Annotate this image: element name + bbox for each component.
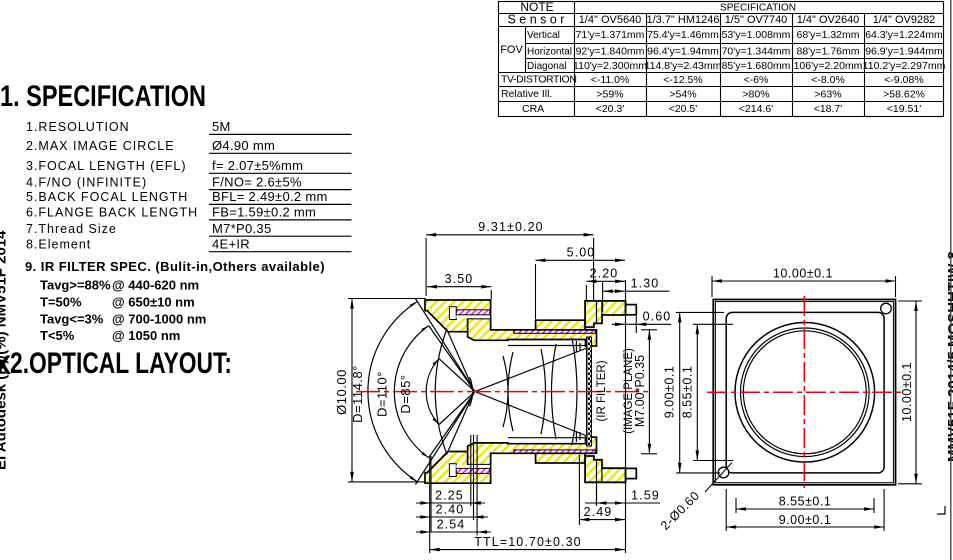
svg-text:96.4'y=1.94mm: 96.4'y=1.94mm <box>647 46 719 58</box>
svg-text:1.59: 1.59 <box>631 489 660 503</box>
svg-text:CRA: CRA <box>522 103 544 115</box>
svg-text:110'y=2.300mm: 110'y=2.300mm <box>573 60 647 72</box>
svg-text:X: X <box>0 350 11 380</box>
svg-text:5.BACK FOCAL LENGTH: 5.BACK FOCAL LENGTH <box>26 190 188 204</box>
svg-text:2.49: 2.49 <box>584 505 613 519</box>
svg-text:Relative Ill.: Relative Ill. <box>501 88 552 100</box>
svg-text:1/4" OV2640: 1/4" OV2640 <box>797 14 860 26</box>
svg-text:@ 1050 nm: @ 1050 nm <box>112 328 180 343</box>
svg-text:106'y=2.20mm: 106'y=2.20mm <box>794 60 863 72</box>
svg-text:S e n s o r: S e n s o r <box>508 13 565 27</box>
svg-text:>59%: >59% <box>596 89 623 101</box>
svg-text:71'y=1.371mm: 71'y=1.371mm <box>576 29 645 41</box>
svg-text:SPECIFICATION: SPECIFICATION <box>720 3 796 14</box>
svg-text:F/NO= 2.6±5%: F/NO= 2.6±5% <box>212 175 302 190</box>
svg-text:1/5" OV7740: 1/5" OV7740 <box>725 14 788 26</box>
svg-text:7.Thread Size: 7.Thread Size <box>26 222 117 236</box>
svg-text:70'y=1.344mm: 70'y=1.344mm <box>722 46 791 58</box>
svg-text:@ 700-1000 nm: @ 700-1000 nm <box>112 311 206 326</box>
svg-text:92'y=1.840mm: 92'y=1.840mm <box>576 46 645 58</box>
svg-text:M7.00*P0.35: M7.00*P0.35 <box>633 355 647 427</box>
svg-text:5M: 5M <box>212 119 231 134</box>
svg-text:3.50: 3.50 <box>445 272 474 286</box>
svg-text:8.55±0.1: 8.55±0.1 <box>681 366 695 419</box>
svg-text:1/4" OV5640: 1/4" OV5640 <box>579 14 642 26</box>
svg-text:Diagonal: Diagonal <box>527 61 566 72</box>
svg-text:8.55±0.1: 8.55±0.1 <box>779 494 832 508</box>
svg-text:1/4" OV9282: 1/4" OV9282 <box>873 14 936 26</box>
svg-text:10.00±0.1: 10.00±0.1 <box>900 362 914 422</box>
svg-text:<20.5': <20.5' <box>669 103 698 115</box>
svg-text:Ø10.00: Ø10.00 <box>334 369 349 415</box>
svg-text:8.Element: 8.Element <box>26 238 91 252</box>
svg-text:1.30: 1.30 <box>631 277 660 291</box>
svg-text:10.00±0.1: 10.00±0.1 <box>773 266 833 280</box>
svg-text:<-12.5%: <-12.5% <box>663 74 702 86</box>
svg-text:T<5%: T<5% <box>40 328 75 343</box>
svg-text:(IR FILTER): (IR FILTER) <box>596 360 608 421</box>
svg-text:Tavg>=88%: Tavg>=88% <box>40 277 111 292</box>
svg-text:0.60: 0.60 <box>643 310 672 324</box>
svg-text:TTL=10.70±0.30: TTL=10.70±0.30 <box>474 535 581 549</box>
svg-text:M7*P0.35: M7*P0.35 <box>212 221 272 236</box>
svg-text:68'y=1.32mm: 68'y=1.32mm <box>797 29 860 41</box>
svg-text:>58.62%: >58.62% <box>883 89 925 101</box>
svg-text:<18.7': <18.7' <box>814 103 843 115</box>
svg-text:3.FOCAL LENGTH (EFL): 3.FOCAL LENGTH (EFL) <box>26 159 187 173</box>
svg-text:<-9.08%: <-9.08% <box>884 74 923 86</box>
svg-text:f= 2.07±5%mm: f= 2.07±5%mm <box>212 158 303 173</box>
svg-text:<-8.0%: <-8.0% <box>811 74 845 86</box>
svg-text:85'y=1.680mm: 85'y=1.680mm <box>722 60 791 72</box>
svg-text:64.3'y=1.224mm: 64.3'y=1.224mm <box>865 29 943 41</box>
svg-text:D=85°: D=85° <box>398 374 413 413</box>
svg-text:D=114.8°: D=114.8° <box>350 365 365 423</box>
svg-text:1. SPECIFICATION: 1. SPECIFICATION <box>0 80 206 113</box>
svg-text:BFL= 2.49±0.2 mm: BFL= 2.49±0.2 mm <box>212 189 328 204</box>
svg-text:2.25: 2.25 <box>435 489 464 503</box>
svg-text:@ 650±10 nm: @ 650±10 nm <box>112 294 195 309</box>
svg-text:Horizontal: Horizontal <box>527 47 572 58</box>
svg-text:<20.3': <20.3' <box>596 103 625 115</box>
svg-text:114.8'y=2.43mm: 114.8'y=2.43mm <box>645 60 722 72</box>
svg-text:MMV51F 2014/5 MOSHHTIW 8: MMV51F 2014/5 MOSHHTIW 8 <box>945 251 953 462</box>
svg-text:88'y=1.76mm: 88'y=1.76mm <box>797 46 860 58</box>
svg-text:53'y=1.008mm: 53'y=1.008mm <box>722 29 791 41</box>
svg-text:>63%: >63% <box>814 89 841 101</box>
svg-text:2.MAX IMAGE CIRCLE: 2.MAX IMAGE CIRCLE <box>26 139 175 153</box>
svg-text:9.00±0.1: 9.00±0.1 <box>663 366 677 419</box>
svg-text:4.F/NO (INFINITE): 4.F/NO (INFINITE) <box>26 176 147 190</box>
svg-text:TV-DISTORTION: TV-DISTORTION <box>501 74 577 86</box>
svg-text:@ 440-620 nm: @ 440-620 nm <box>112 277 199 292</box>
svg-text:<-11.0%: <-11.0% <box>591 74 630 86</box>
svg-text:1.RESOLUTION: 1.RESOLUTION <box>26 120 130 134</box>
svg-text:Vertical: Vertical <box>527 30 560 41</box>
svg-text:D=110°: D=110° <box>375 371 390 417</box>
svg-text:T=50%: T=50% <box>40 294 82 309</box>
svg-text:9.00±0.1: 9.00±0.1 <box>779 513 832 527</box>
svg-text:>80%: >80% <box>742 89 769 101</box>
svg-text:6.FLANGE BACK LENGTH: 6.FLANGE BACK LENGTH <box>26 206 198 220</box>
svg-text:1/3.7" HM1246: 1/3.7" HM1246 <box>646 14 719 26</box>
svg-text:<214.6': <214.6' <box>739 103 773 115</box>
svg-text:2.20: 2.20 <box>590 267 619 281</box>
svg-text:>54%: >54% <box>669 89 696 101</box>
svg-text:5.00: 5.00 <box>567 246 596 260</box>
svg-text:2.40: 2.40 <box>436 503 465 517</box>
svg-text:Tavg<=3%: Tavg<=3% <box>40 311 104 326</box>
svg-text:2-Ø0.60: 2-Ø0.60 <box>658 489 702 533</box>
svg-text:96.9'y=1.944mm: 96.9'y=1.944mm <box>865 46 943 58</box>
svg-text:Ø4.90 mm: Ø4.90 mm <box>212 138 275 153</box>
svg-text:110.2'y=2.297mm: 110.2'y=2.297mm <box>863 60 946 72</box>
svg-text:2.OPTICAL LAYOUT:: 2.OPTICAL LAYOUT: <box>10 347 232 380</box>
svg-text:<-6%: <-6% <box>744 74 769 86</box>
svg-text:FB=1.59±0.2 mm: FB=1.59±0.2 mm <box>212 205 316 220</box>
svg-text:4E+IR: 4E+IR <box>212 237 250 252</box>
svg-text:FOV: FOV <box>500 44 523 56</box>
svg-text:75.4'y=1.46mm: 75.4'y=1.46mm <box>647 29 719 41</box>
svg-text:<19.51': <19.51' <box>887 103 921 115</box>
svg-text:2.54: 2.54 <box>437 518 466 532</box>
svg-text:9.31±0.20: 9.31±0.20 <box>478 220 543 234</box>
svg-text:9. IR FILTER SPEC. (Bulit-in,O: 9. IR FILTER SPEC. (Bulit-in,Others avai… <box>25 259 325 274</box>
